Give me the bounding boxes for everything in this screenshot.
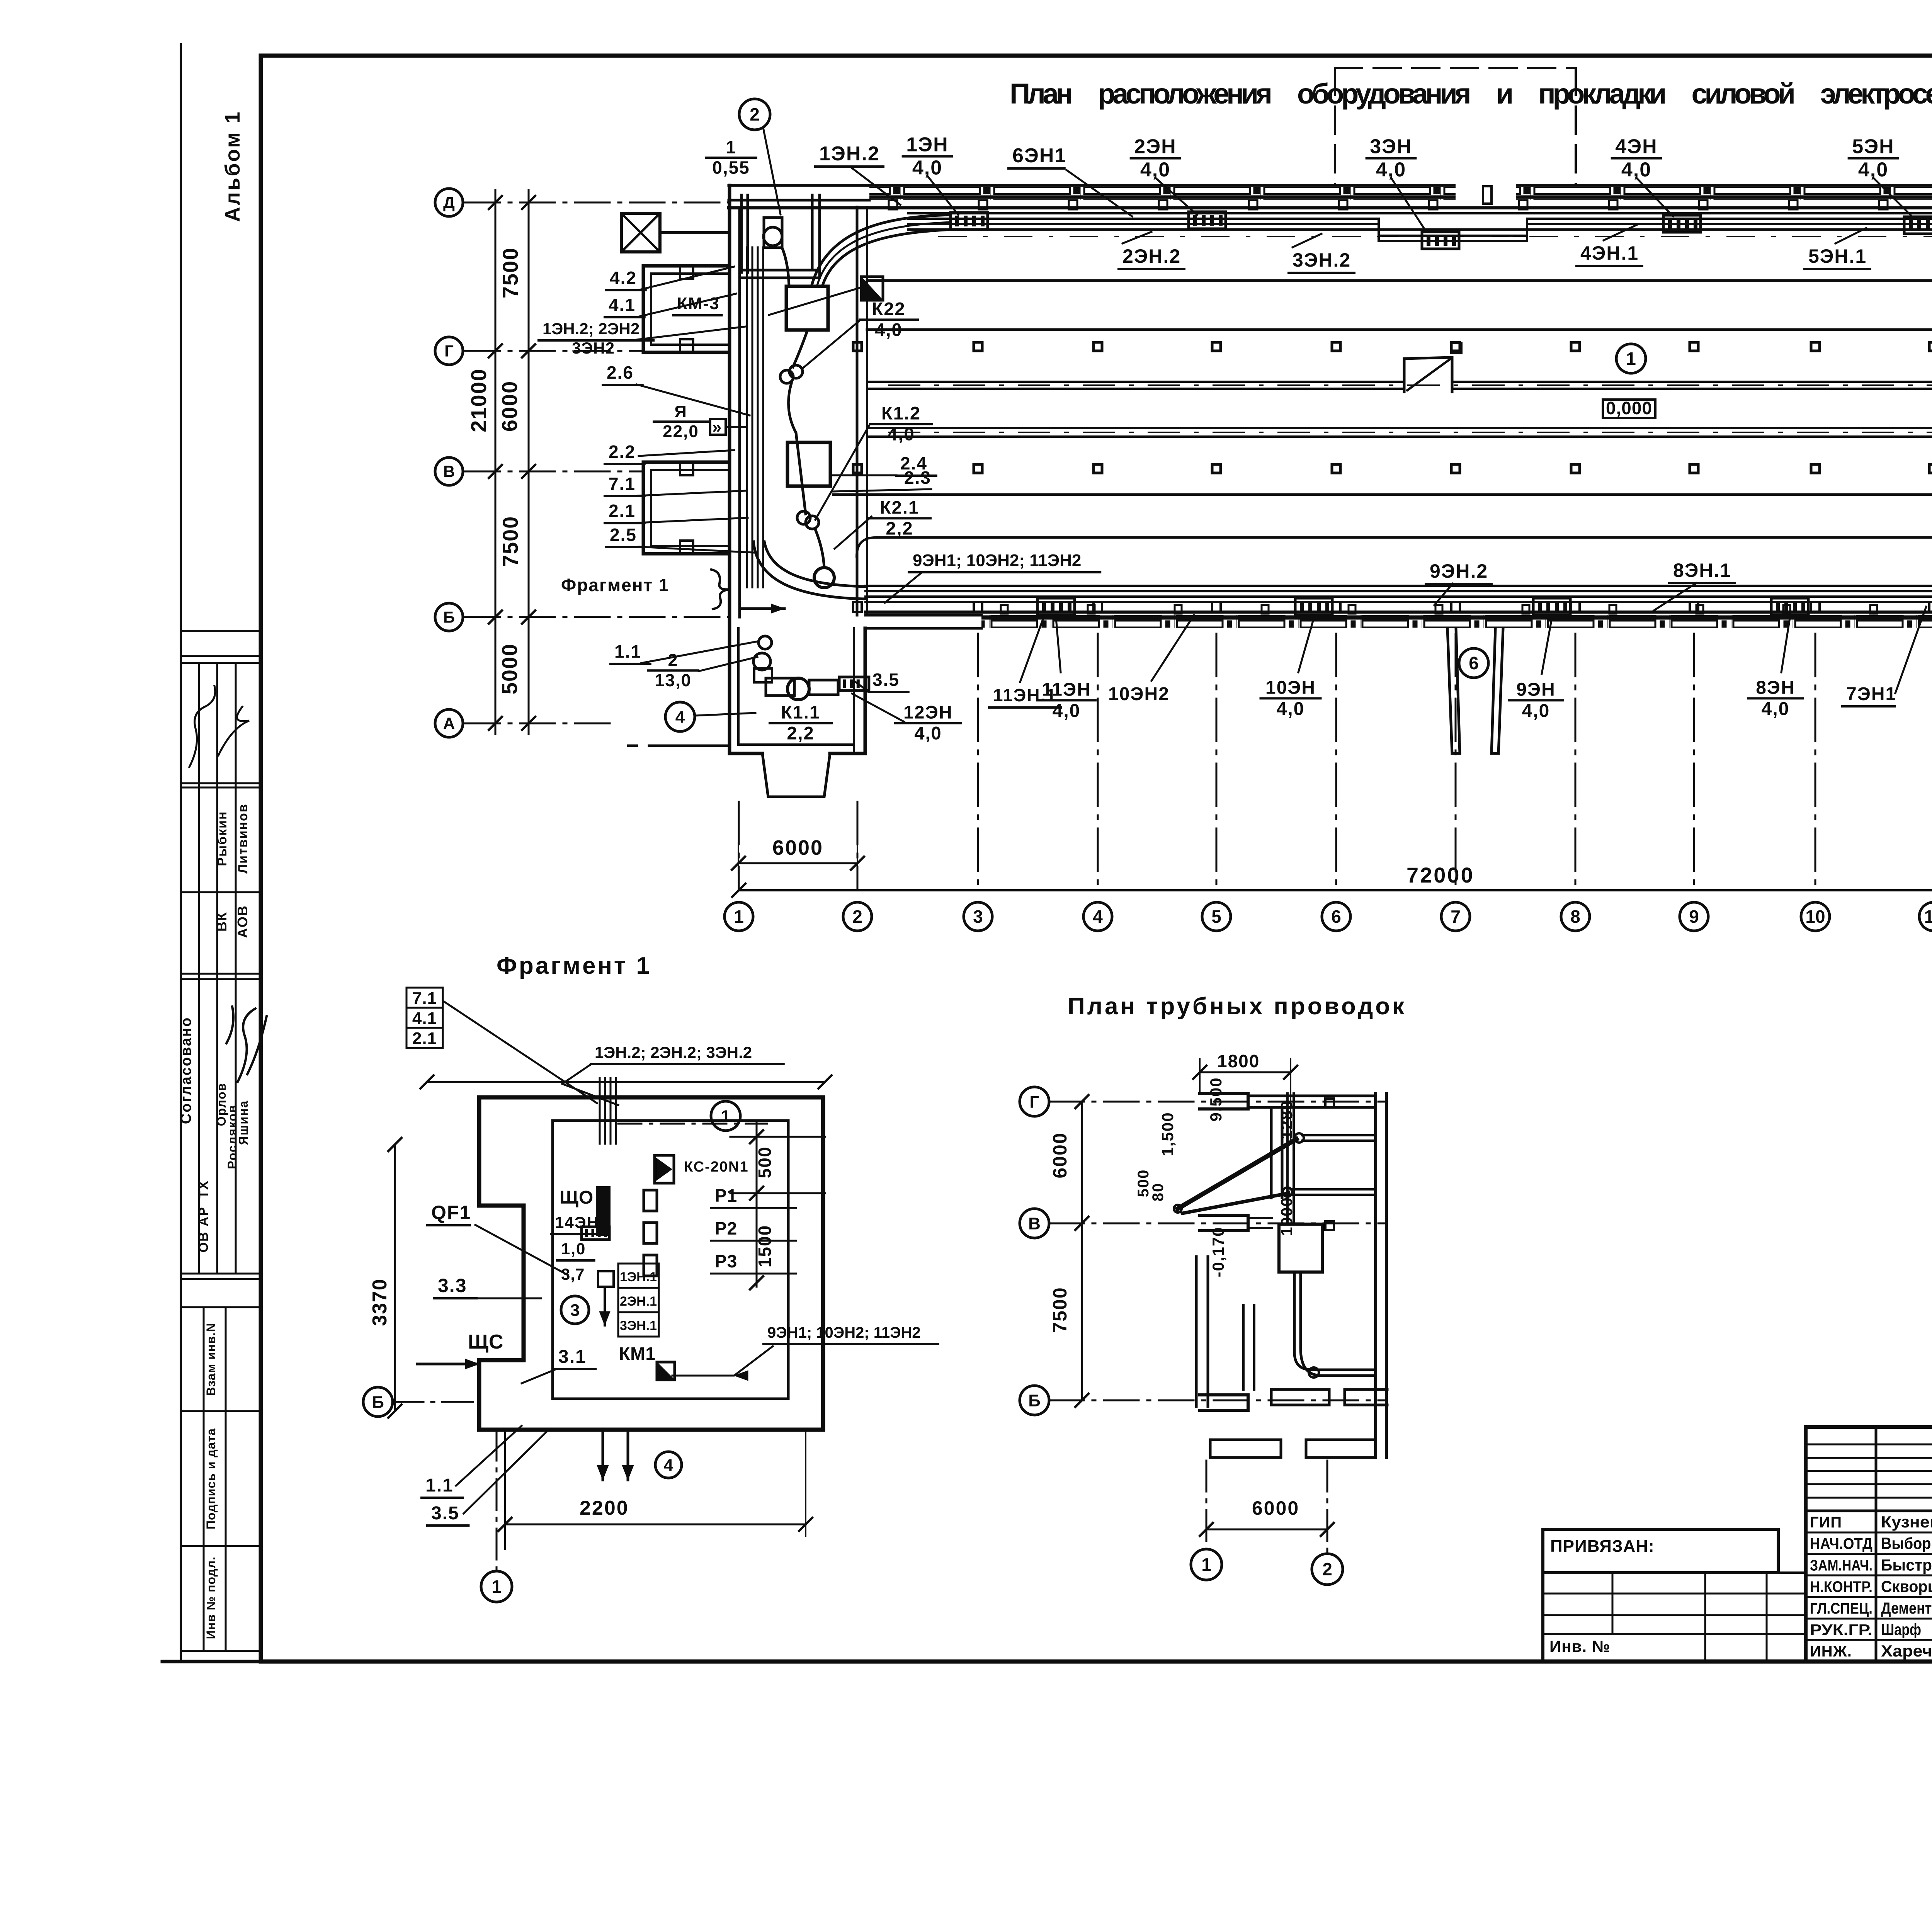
svg-text:Р1: Р1: [715, 1185, 737, 1206]
svg-text:ЗАМ.НАЧ.: ЗАМ.НАЧ.: [1810, 1557, 1872, 1574]
svg-text:3.1: 3.1: [558, 1347, 587, 1367]
svg-text:3370: 3370: [369, 1278, 391, 1326]
svg-text:ЩО: ЩО: [560, 1187, 594, 1208]
svg-text:6: 6: [1469, 653, 1479, 673]
svg-text:Г: Г: [1030, 1092, 1039, 1111]
svg-text:КМ-3: КМ-3: [677, 294, 720, 313]
svg-text:Выборный: Выборный: [1881, 1534, 1932, 1553]
svg-text:Я: Я: [674, 402, 687, 421]
svg-text:6000: 6000: [1252, 1497, 1299, 1519]
svg-text:3ЭН.2: 3ЭН.2: [1293, 249, 1351, 271]
svg-text:Б: Б: [372, 1393, 384, 1412]
svg-text:Инв № подл.: Инв № подл.: [204, 1556, 218, 1639]
svg-text:9ЭН1; 10ЭН2; 11ЭН2: 9ЭН1; 10ЭН2; 11ЭН2: [767, 1324, 921, 1341]
svg-text:6000: 6000: [772, 836, 823, 859]
svg-text:2ЭН.1: 2ЭН.1: [620, 1294, 657, 1309]
svg-text:80: 80: [1150, 1183, 1167, 1202]
svg-text:4ЭН: 4ЭН: [1615, 136, 1657, 158]
svg-text:2.5: 2.5: [610, 525, 637, 545]
svg-text:14ЭН: 14ЭН: [555, 1213, 599, 1231]
svg-text:4,0: 4,0: [914, 723, 942, 743]
svg-text:4ЭН.1: 4ЭН.1: [1580, 242, 1639, 264]
svg-text:6000: 6000: [1049, 1132, 1071, 1178]
svg-text:0,000: 0,000: [1606, 398, 1652, 418]
svg-text:1.1: 1.1: [614, 641, 641, 662]
svg-text:3.3: 3.3: [438, 1275, 467, 1296]
svg-text:1280: 1280: [1277, 1100, 1296, 1139]
svg-text:Б: Б: [1028, 1391, 1041, 1410]
svg-text:13,0: 13,0: [655, 670, 692, 690]
svg-text:5000: 5000: [497, 643, 522, 695]
svg-text:В: В: [1028, 1214, 1041, 1233]
svg-text:1ЭН.2: 1ЭН.2: [819, 143, 880, 165]
svg-text:7500: 7500: [498, 247, 522, 299]
svg-text:7500: 7500: [498, 516, 522, 567]
svg-text:4: 4: [664, 1456, 673, 1475]
svg-text:Шарф: Шарф: [1881, 1621, 1921, 1639]
svg-text:Н.КОНТР.: Н.КОНТР.: [1810, 1578, 1872, 1595]
svg-text:КС-20N1: КС-20N1: [684, 1159, 749, 1175]
svg-text:2200: 2200: [580, 1497, 629, 1519]
svg-text:1ЭН.1: 1ЭН.1: [620, 1270, 657, 1284]
svg-text:7ЭН1: 7ЭН1: [1846, 684, 1896, 704]
svg-text:2,2: 2,2: [886, 518, 913, 539]
svg-text:1,0: 1,0: [561, 1240, 586, 1258]
svg-text:9: 9: [1689, 906, 1699, 927]
svg-text:8ЭН.1: 8ЭН.1: [1673, 560, 1731, 581]
svg-text:ВК: ВК: [214, 912, 230, 932]
svg-text:Д: Д: [443, 194, 455, 212]
svg-text:7500: 7500: [1049, 1287, 1071, 1333]
svg-text:22,0: 22,0: [663, 422, 699, 441]
svg-text:1.1: 1.1: [425, 1475, 454, 1496]
svg-text:1ЭН.2; 2ЭН2: 1ЭН.2; 2ЭН2: [543, 320, 639, 338]
svg-text:ГЛ.СПЕЦ.: ГЛ.СПЕЦ.: [1810, 1600, 1872, 1617]
svg-text:10: 10: [1805, 906, 1825, 927]
svg-text:2.3: 2.3: [904, 468, 931, 488]
svg-text:Согласовано: Согласовано: [178, 1017, 194, 1124]
svg-text:500: 500: [755, 1146, 775, 1179]
svg-text:-0,170: -0,170: [1209, 1226, 1227, 1277]
svg-text:Взам инв.N: Взам инв.N: [204, 1323, 218, 1396]
svg-text:6: 6: [1331, 906, 1341, 927]
svg-text:А: А: [443, 714, 455, 733]
svg-text:21000: 21000: [466, 368, 491, 432]
svg-text:1: 1: [492, 1577, 502, 1597]
svg-text:Альбом 1: Альбом 1: [221, 110, 244, 222]
svg-text:КМ1: КМ1: [619, 1344, 656, 1364]
svg-text:Литвинов: Литвинов: [236, 803, 250, 873]
svg-text:РУК.ГР.: РУК.ГР.: [1810, 1622, 1872, 1639]
svg-text:10ЭН: 10ЭН: [1265, 677, 1316, 698]
svg-text:QF1: QF1: [431, 1202, 471, 1223]
svg-text:4,0: 4,0: [1762, 699, 1790, 719]
svg-text:2: 2: [1322, 1559, 1332, 1579]
svg-text:Фрагмент 1: Фрагмент 1: [561, 575, 669, 595]
svg-text:НАЧ.ОТД: НАЧ.ОТД: [1810, 1536, 1872, 1553]
svg-text:Дементьева: Дементьева: [1881, 1599, 1932, 1617]
svg-text:11ЭН: 11ЭН: [1042, 679, 1091, 700]
svg-text:Г: Г: [444, 342, 454, 360]
svg-text:3.5: 3.5: [431, 1503, 459, 1524]
svg-text:2,2: 2,2: [787, 723, 814, 743]
svg-text:ТХ: ТХ: [196, 1180, 211, 1198]
svg-text:К1.1: К1.1: [781, 702, 820, 723]
svg-text:4,0: 4,0: [1522, 701, 1550, 721]
svg-text:4.2: 4.2: [610, 268, 637, 288]
svg-text:4,0: 4,0: [875, 320, 902, 340]
svg-text:1ЭН: 1ЭН: [906, 134, 948, 156]
svg-text:АОВ: АОВ: [235, 905, 250, 938]
svg-text:Яшина: Яшина: [236, 1100, 250, 1145]
svg-text:Р3: Р3: [715, 1251, 737, 1271]
svg-text:ЩС: ЩС: [468, 1331, 504, 1353]
svg-text:6000: 6000: [497, 381, 522, 432]
svg-text:4: 4: [675, 707, 685, 726]
svg-text:72000: 72000: [1406, 863, 1475, 887]
svg-text:ИНЖ.: ИНЖ.: [1810, 1643, 1852, 1660]
svg-text:2.6: 2.6: [607, 362, 634, 383]
svg-text:4: 4: [1093, 906, 1103, 927]
svg-text:К2.1: К2.1: [880, 497, 919, 518]
svg-text:Рыбкин: Рыбкин: [215, 811, 230, 866]
svg-text:1ЭН.2; 2ЭН.2; 3ЭН.2: 1ЭН.2; 2ЭН.2; 3ЭН.2: [595, 1043, 752, 1061]
svg-text:План расположения оборудования: План расположения оборудования и проклад…: [1010, 78, 1932, 110]
svg-text:5ЭН.1: 5ЭН.1: [1808, 245, 1867, 267]
svg-text:Скворцова: Скворцова: [1881, 1577, 1932, 1595]
svg-text:Фрагмент 1: Фрагмент 1: [497, 952, 651, 979]
svg-text:7: 7: [1451, 906, 1461, 927]
svg-text:2: 2: [852, 906, 862, 927]
svg-text:8: 8: [1570, 906, 1580, 927]
svg-text:Инв. №: Инв. №: [1549, 1637, 1611, 1655]
svg-text:Б: Б: [443, 608, 455, 626]
svg-text:4.1: 4.1: [412, 1009, 437, 1028]
svg-text:4,0: 4,0: [887, 424, 915, 444]
svg-text:4,0: 4,0: [1277, 699, 1305, 719]
svg-text:3ЭН2: 3ЭН2: [572, 339, 615, 357]
svg-text:Кузнецов: Кузнецов: [1881, 1513, 1932, 1531]
svg-text:1500: 1500: [755, 1225, 775, 1267]
svg-text:1: 1: [734, 906, 744, 927]
svg-text:ОВ: ОВ: [196, 1231, 211, 1253]
svg-text:2: 2: [750, 104, 760, 124]
svg-text:В: В: [443, 463, 455, 481]
svg-text:9ЭН1; 10ЭН2; 11ЭН2: 9ЭН1; 10ЭН2; 11ЭН2: [913, 551, 1081, 570]
svg-text:3ЭН.1: 3ЭН.1: [620, 1318, 657, 1333]
svg-text:9ЭН.2: 9ЭН.2: [1430, 560, 1488, 582]
svg-text:2.1: 2.1: [412, 1029, 437, 1048]
svg-text:1,500: 1,500: [1158, 1112, 1177, 1156]
svg-text:Подпись и дата: Подпись и дата: [204, 1428, 218, 1529]
svg-text:1: 1: [1626, 349, 1636, 369]
svg-text:5ЭН: 5ЭН: [1852, 136, 1894, 158]
svg-text:1000: 1000: [1277, 1197, 1296, 1236]
svg-text:3: 3: [570, 1301, 580, 1320]
svg-text:Р2: Р2: [715, 1218, 737, 1238]
svg-text:К1.2: К1.2: [881, 403, 921, 423]
svg-text:1: 1: [721, 1107, 730, 1126]
svg-text:Харечко: Харечко: [1881, 1642, 1932, 1660]
svg-text:ГИП: ГИП: [1810, 1514, 1842, 1531]
svg-text:5: 5: [1211, 906, 1221, 927]
svg-text:9ЭН: 9ЭН: [1516, 679, 1556, 700]
svg-text:7.1: 7.1: [609, 474, 636, 494]
svg-text:1: 1: [726, 137, 736, 157]
svg-text:2.1: 2.1: [609, 501, 636, 521]
svg-text:7.1: 7.1: [412, 989, 437, 1008]
svg-text:3ЭН: 3ЭН: [1370, 136, 1412, 158]
svg-text:3: 3: [973, 906, 983, 927]
svg-text:12ЭН: 12ЭН: [903, 702, 953, 723]
svg-text:АР: АР: [196, 1206, 211, 1226]
svg-text:2.2: 2.2: [609, 442, 636, 462]
svg-text:10ЭН2: 10ЭН2: [1108, 684, 1170, 704]
svg-text:1: 1: [1201, 1554, 1211, 1575]
svg-text:9,500: 9,500: [1207, 1077, 1225, 1121]
svg-text:2: 2: [668, 650, 678, 670]
svg-text:План трубных проводок: План трубных проводок: [1068, 993, 1406, 1020]
svg-text:Быстров: Быстров: [1881, 1556, 1932, 1574]
svg-text:4.1: 4.1: [609, 295, 636, 315]
svg-text:4,0: 4,0: [1053, 701, 1081, 721]
svg-text:2ЭН.2: 2ЭН.2: [1122, 245, 1181, 267]
svg-text:0,55: 0,55: [712, 158, 750, 178]
svg-text:11: 11: [1924, 906, 1932, 927]
svg-text:3.5: 3.5: [872, 670, 900, 690]
svg-text:2ЭН: 2ЭН: [1134, 136, 1176, 158]
svg-text:К22: К22: [872, 299, 906, 319]
svg-text:»: »: [712, 418, 721, 437]
svg-text:6ЭН1: 6ЭН1: [1012, 145, 1066, 167]
svg-text:1800: 1800: [1217, 1051, 1260, 1071]
svg-text:8ЭН: 8ЭН: [1756, 677, 1795, 698]
svg-text:ПРИВЯЗАН:: ПРИВЯЗАН:: [1550, 1537, 1655, 1556]
